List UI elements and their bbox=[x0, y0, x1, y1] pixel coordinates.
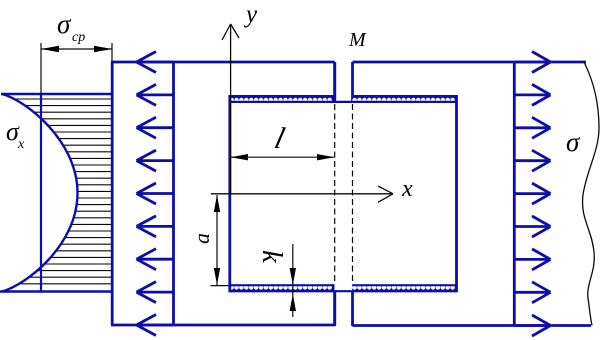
cover plate bottom weld band bbox=[229, 284, 457, 292]
right plate bottom edge bbox=[353, 324, 592, 327]
k dimension line bbox=[292, 244, 294, 317]
a dimension arrowhead down bbox=[214, 268, 220, 285]
a dimension arrowhead up bbox=[214, 195, 220, 212]
sigma_cp dimension arrowhead right bbox=[94, 46, 112, 52]
hidden edge dashed line left bbox=[334, 104, 336, 284]
left plate top edge bbox=[111, 61, 335, 64]
sigma_x curve bbox=[2, 94, 78, 292]
svg-text:M: M bbox=[348, 29, 367, 51]
cover plate top edge line bbox=[229, 101, 457, 103]
cover plate bottom edge line bbox=[229, 290, 457, 292]
l dimension arrowhead left bbox=[231, 154, 249, 160]
cover plate right edge bbox=[455, 95, 458, 292]
y axis bbox=[222, 24, 239, 194]
cover plate top weld band bbox=[229, 95, 457, 103]
left plate right edge top segment bbox=[333, 62, 336, 102]
left load tail line bbox=[172, 62, 175, 325]
l dimension arrowhead right bbox=[317, 154, 334, 160]
k dimension arrowhead up bbox=[290, 294, 296, 311]
hidden edge dashed line right bbox=[352, 104, 354, 284]
svg-text:y: y bbox=[243, 1, 258, 28]
l dimension line bbox=[230, 156, 335, 158]
gap left edge bottom bbox=[333, 291, 336, 327]
cover plate left edge bbox=[228, 95, 231, 292]
svg-text:k: k bbox=[256, 250, 288, 264]
sigma_x diagram top edge bbox=[1, 93, 112, 95]
gap right edge bottom bbox=[351, 291, 354, 327]
k dimension arrowhead down bbox=[290, 268, 296, 285]
sigma_cp dimension extension line left bbox=[40, 43, 42, 94]
left plate left edge bbox=[111, 62, 114, 325]
a dimension line bbox=[216, 195, 218, 285]
a dimension extension tick bbox=[211, 285, 230, 287]
break wavy line bbox=[583, 62, 599, 326]
svg-text:x: x bbox=[17, 137, 25, 152]
sigma_x diagram bottom edge bbox=[0, 290, 112, 292]
right distributed load arrows bbox=[514, 52, 550, 337]
x axis bbox=[211, 186, 393, 202]
left plate right edge bottom segment bbox=[333, 291, 336, 326]
hatch lines of sigma_x stress diagram bbox=[0, 99, 111, 284]
right load tail line bbox=[513, 62, 516, 326]
svg-text:a: a bbox=[189, 233, 214, 244]
right plate top edge bbox=[353, 61, 587, 64]
left distributed load arrows bbox=[137, 52, 174, 336]
svg-text:σ: σ bbox=[566, 127, 581, 157]
sigma_cp dimension line bbox=[41, 48, 112, 50]
sigma_cp average stress line bbox=[40, 94, 42, 292]
sigma_cp dimension extension line right bbox=[111, 43, 113, 62]
svg-text:ср: ср bbox=[72, 30, 85, 45]
gap right edge top bbox=[351, 62, 354, 102]
sigma_cp dimension arrowhead left bbox=[41, 46, 59, 52]
cover plate bottom weld top outline bbox=[229, 284, 335, 286]
left plate bottom edge bbox=[111, 324, 335, 327]
svg-text:σ: σ bbox=[57, 9, 72, 39]
gap left edge top bbox=[333, 62, 336, 102]
svg-text:x: x bbox=[401, 176, 413, 202]
